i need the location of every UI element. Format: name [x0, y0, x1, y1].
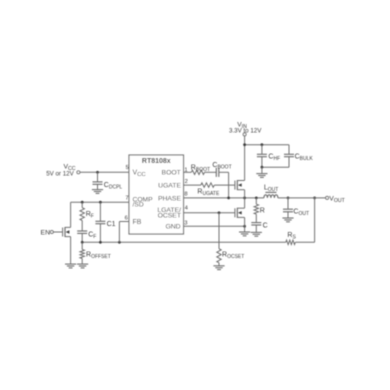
svg-text:5V or 12V: 5V or 12V	[46, 171, 74, 178]
svg-text:6: 6	[125, 216, 128, 222]
svg-text:3.3V to 12V: 3.3V to 12V	[229, 127, 262, 134]
svg-text:C: C	[263, 223, 268, 230]
svg-text:UGATE: UGATE	[158, 182, 181, 189]
svg-text:C1: C1	[107, 221, 116, 228]
svg-text:/SD: /SD	[133, 202, 144, 209]
svg-text:GND: GND	[165, 224, 180, 231]
svg-text:EN: EN	[41, 229, 51, 236]
svg-text:7: 7	[125, 196, 128, 202]
svg-text:2: 2	[185, 179, 188, 185]
svg-text:OCSET: OCSET	[158, 212, 181, 219]
svg-text:RT8108x: RT8108x	[142, 158, 171, 165]
svg-text:5: 5	[126, 165, 129, 171]
svg-text:8: 8	[184, 192, 187, 198]
svg-text:PHASE: PHASE	[158, 195, 182, 202]
svg-text:3: 3	[184, 220, 187, 226]
svg-text:BOOT: BOOT	[162, 170, 181, 177]
svg-text:R: R	[260, 208, 265, 215]
svg-text:FB: FB	[133, 219, 142, 226]
